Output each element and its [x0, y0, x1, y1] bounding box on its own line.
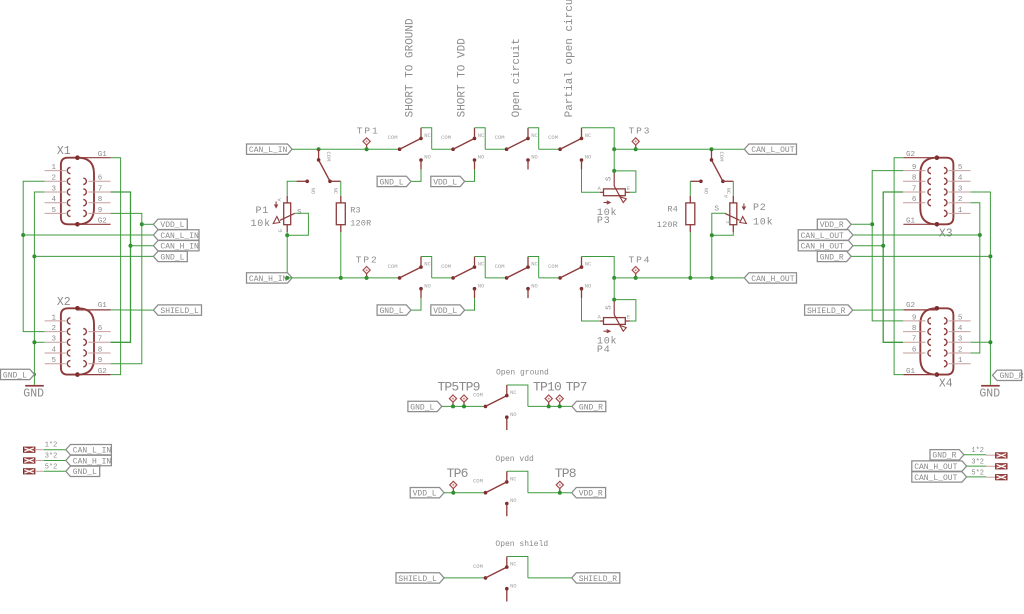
- P4 adjust arrow: [604, 330, 611, 333]
- switch S9 lever COM-NC: [319, 160, 330, 181]
- net flag CAN_H_IN (cross reference): [66, 455, 112, 465]
- wire NC bump of S6: [475, 257, 486, 278]
- switch S2 NC contact and pin: [473, 137, 477, 141]
- switch S4 COM contact: [558, 147, 562, 151]
- svg-text:GND_L: GND_L: [73, 468, 97, 477]
- svg-text:NO: NO: [424, 154, 431, 161]
- pin 4 of X2: [45, 346, 66, 354]
- pin 1 of X3: [949, 207, 971, 215]
- svg-text:COM: COM: [548, 263, 558, 270]
- switch S13 COM contact: [484, 576, 488, 580]
- pin 8 of X2: [88, 346, 110, 354]
- junction GND / bottom GND_L flag: [33, 373, 36, 376]
- svg-text:NC: NC: [332, 188, 339, 195]
- svg-text:VDD_L: VDD_L: [413, 490, 437, 499]
- wire NO of S5 down to GND_L flag: [411, 298, 421, 310]
- switch S3 lever COM-NC: [507, 138, 528, 149]
- wire Open ground left row: [442, 405, 486, 407]
- pin 6 of X1: [88, 175, 110, 183]
- svg-text:CAN_L_OUT: CAN_L_OUT: [914, 474, 957, 483]
- off-page connector 3*2 (right, CAN_H_OUT): [996, 464, 1007, 469]
- wire NO of S9 to P1 pin A: [287, 181, 296, 196]
- connector X3 contact arcs left column: [928, 168, 931, 206]
- svg-text:Open ground: Open ground: [496, 369, 549, 378]
- switch S2 COM contact: [451, 147, 455, 151]
- switch S8 NC contact and pin: [580, 265, 584, 269]
- resistor R4 120R: [686, 196, 695, 232]
- switch S6 COM contact: [451, 276, 455, 280]
- svg-text:NO: NO: [510, 497, 517, 504]
- switch S4 NC contact and pin: [580, 137, 584, 141]
- junction GND / X4 pin3: [988, 340, 992, 344]
- switch S3 NO contact and pin: [526, 158, 530, 162]
- svg-text:NC: NC: [510, 561, 517, 568]
- switch S4 lever COM-NC: [560, 138, 581, 149]
- svg-text:SHIELD_R: SHIELD_R: [579, 575, 618, 584]
- connector X2 shell attach dot top: [75, 306, 80, 311]
- switch S10 pin labels: [702, 152, 731, 195]
- off-page connector 3*2 (left, CAN_H_IN): [24, 458, 35, 463]
- svg-text:120R: 120R: [350, 218, 371, 228]
- connector X4 shell attach dot top: [935, 306, 940, 311]
- pin 1 of X1: [45, 164, 66, 172]
- wire P3 S tie to pin E: [614, 171, 636, 192]
- svg-text:NC: NC: [585, 132, 592, 139]
- potentiometer P2 10k: [725, 196, 747, 232]
- wire NC bump of S8: [582, 257, 615, 278]
- svg-text:GND: GND: [23, 387, 44, 400]
- svg-text:SHIELD_L: SHIELD_L: [160, 307, 199, 316]
- net flag CAN_L_OUT (ladder output): [744, 144, 796, 154]
- svg-text:TP8: TP8: [555, 466, 576, 481]
- svg-text:VDD_L: VDD_L: [433, 307, 457, 316]
- pin G1 of X2 (shell) line: [78, 309, 111, 311]
- pin G1 of X4 (shell) line: [903, 374, 936, 376]
- junction P3 S-E tie: [612, 169, 616, 173]
- junction CAN_L / right termination branch: [710, 147, 714, 151]
- svg-text:GND_R: GND_R: [820, 253, 844, 262]
- svg-text:TP5: TP5: [437, 380, 458, 395]
- junction CAN_H / P4 branch: [612, 276, 616, 280]
- junction CAN_H / CAN_H_OUT row: [881, 244, 885, 248]
- pin 5 of X1: [45, 207, 66, 215]
- pin G2 of X3 (shell) line: [903, 157, 936, 159]
- pin 3 of X2: [45, 336, 66, 344]
- svg-text:S: S: [715, 206, 720, 214]
- switch S8 NO contact and pin: [580, 287, 584, 291]
- svg-text:G2: G2: [906, 151, 915, 159]
- svg-text:3: 3: [51, 185, 56, 193]
- connector X4 body: [920, 308, 953, 374]
- svg-text:NO: NO: [585, 282, 592, 289]
- connector X3 body: [920, 158, 953, 225]
- test point TP4: [632, 267, 639, 280]
- svg-text:CAN_L_IN: CAN_L_IN: [249, 146, 288, 155]
- svg-text:NC: NC: [585, 261, 592, 268]
- svg-text:10k: 10k: [753, 217, 773, 229]
- pin G2 of X1 (shell) line, unconnected stub: [78, 223, 111, 225]
- svg-text:COM: COM: [325, 152, 332, 162]
- switch S7 pin labels: [495, 261, 539, 290]
- switch S11 lever COM-NC: [486, 396, 507, 407]
- svg-text:GND_L: GND_L: [3, 371, 27, 380]
- svg-text:GND_L: GND_L: [160, 253, 184, 262]
- pin 5 of X3: [949, 164, 971, 172]
- connector X4 contact arcs left column: [928, 318, 931, 356]
- svg-text:1: 1: [958, 357, 963, 365]
- test point TP1: [363, 138, 370, 151]
- wire CAN_L row: branch junction to TP1: [319, 148, 367, 150]
- pin 4 of X4: [949, 325, 971, 333]
- svg-text:7: 7: [912, 336, 917, 344]
- connector X2 body: [61, 308, 94, 374]
- wire Open ground right row: [528, 405, 572, 407]
- switch S12 COM contact: [484, 491, 488, 495]
- net flag CAN_L_OUT (cross reference): [912, 472, 967, 482]
- net flag CAN_H_OUT (cross reference): [912, 461, 967, 471]
- svg-text:G2: G2: [98, 217, 107, 225]
- junction GND / GND_L row: [32, 254, 36, 258]
- svg-text:9: 9: [98, 357, 103, 365]
- svg-text:4: 4: [51, 346, 56, 354]
- potentiometer P3 10k: [600, 171, 630, 203]
- test point TP9: [460, 395, 467, 408]
- svg-text:COM: COM: [388, 263, 398, 270]
- wire P2 wiper S tie to E: [712, 213, 725, 235]
- wire S6 bump to next switch COM: [485, 277, 506, 279]
- wire NC bump of S7: [528, 257, 539, 278]
- switch S2 NO contact and pin: [473, 158, 477, 162]
- wire CAN_L_OUT flag to 5*2: [967, 476, 996, 478]
- svg-text:G2: G2: [906, 302, 915, 310]
- svg-text:COM: COM: [441, 134, 451, 141]
- pin 6 of X3: [903, 196, 926, 204]
- pin 8 of X3: [903, 175, 926, 183]
- switch S1 NO contact and pin: [419, 158, 423, 162]
- svg-text:NC: NC: [510, 475, 517, 482]
- wire CAN_H_IN row: [131, 245, 154, 247]
- wire GND net to X2 pin3: [34, 341, 44, 343]
- off-page connector 1*2 (left, CAN_L_IN): [24, 447, 35, 452]
- svg-text:X4: X4: [939, 378, 953, 391]
- switch S2 pin labels: [441, 132, 485, 161]
- svg-text:TP3: TP3: [629, 126, 652, 137]
- wire VDD net right: X3 pin9 - X4 pin9: [872, 171, 903, 321]
- switch S12 NO contact and pin: [505, 502, 509, 506]
- pin 3 of X4: [949, 336, 971, 344]
- svg-text:5*2: 5*2: [45, 463, 58, 471]
- svg-text:X2: X2: [57, 296, 71, 309]
- pin G1 of X3 (shell) line, unconnected stub: [903, 223, 936, 225]
- wire P1 wiper S tie to E: [287, 213, 308, 235]
- wire NC of S9 to R3: [340, 181, 342, 196]
- wire R4 down to CAN_H row: [689, 232, 691, 278]
- connector X3 contact arcs right column: [944, 168, 947, 217]
- pin 1 of X4: [949, 357, 971, 365]
- pin 7 of X4: [903, 336, 926, 344]
- net flag GND_L (left column): [153, 251, 187, 261]
- wire S5 bump to next switch COM: [432, 277, 453, 279]
- wire shell net right: X3 G2 - X4 G1: [894, 158, 903, 375]
- P3 adjust arrow: [604, 201, 611, 204]
- switch S2 lever COM-NC: [453, 138, 474, 149]
- switch S1 lever COM-NC: [400, 138, 421, 149]
- svg-text:TP6: TP6: [447, 466, 468, 481]
- svg-text:NC: NC: [424, 132, 431, 139]
- pin 2 of X2: [45, 325, 66, 333]
- switch S13 pin labels: [473, 561, 517, 590]
- svg-text:3*2: 3*2: [45, 453, 58, 461]
- svg-text:NO: NO: [478, 282, 485, 289]
- wire Open vdd left row: [444, 492, 485, 494]
- net flag CAN_H_OUT (right column): [798, 241, 853, 251]
- svg-text:Open circuit: Open circuit: [511, 38, 523, 117]
- svg-text:CAN_H_OUT: CAN_H_OUT: [801, 243, 844, 252]
- junction CAN_L / CAN_L_IN row: [21, 233, 25, 237]
- svg-text:10k: 10k: [251, 218, 271, 230]
- wire 1*2 to CAN_L_IN flag: [35, 449, 66, 451]
- wire CAN_L net left: X1 pin2 - X2 pin2: [23, 181, 44, 331]
- switch S3 NC contact and pin: [526, 137, 530, 141]
- switch S7 COM contact: [505, 276, 509, 280]
- wire P1 pin E to tie junction: [286, 232, 288, 235]
- svg-text:X1: X1: [57, 145, 71, 158]
- pin 9 of X1: [88, 207, 110, 215]
- switch S3 COM contact: [505, 147, 509, 151]
- wire CAN_L net right: X3 pin2 - X4 pin2: [971, 203, 980, 353]
- svg-text:NC: NC: [478, 261, 485, 268]
- svg-text:G2: G2: [98, 368, 107, 376]
- wire NC bump of S4: [582, 128, 615, 149]
- svg-text:1*2: 1*2: [45, 442, 58, 450]
- svg-text:NO: NO: [531, 154, 538, 161]
- switch S5 COM contact: [398, 276, 402, 280]
- wire NC bump of S2: [475, 128, 486, 149]
- switch S10 lever COM-NC: [712, 160, 723, 181]
- switch S6 lever COM-NC: [453, 267, 474, 278]
- svg-text:2: 2: [958, 346, 963, 354]
- svg-text:S: S: [605, 305, 613, 310]
- wire P3 S down from CAN_L row: [613, 149, 615, 171]
- switch S4 pin labels: [548, 132, 592, 161]
- connector X4 contact arcs right column: [944, 318, 947, 367]
- connector X1 contact arcs left column: [67, 168, 70, 217]
- wire CAN_H net left: X1 pin7 - X2 pin7: [111, 192, 131, 342]
- switch S11 COM contact: [484, 405, 488, 409]
- svg-text:CAN_H_IN: CAN_H_IN: [73, 457, 112, 466]
- svg-text:COM: COM: [495, 263, 505, 270]
- connector X1 shell attach dot top: [75, 155, 80, 160]
- svg-text:CAN_H_IN: CAN_H_IN: [160, 243, 199, 252]
- wire VDD net left: X1 pin9 - X2 pin9: [111, 213, 142, 363]
- off-page connector 5*2 (left, GND_L): [24, 469, 35, 474]
- net flag GND_L (under S5): [377, 305, 411, 315]
- wire NC bump of S3: [528, 128, 539, 149]
- wire Open vdd right row: [528, 492, 572, 494]
- svg-text:NO: NO: [585, 154, 592, 161]
- svg-text:1: 1: [51, 314, 56, 322]
- svg-text:9: 9: [98, 207, 103, 215]
- wire GND net left: X1 pin3 down to ground bar: [34, 192, 44, 385]
- wire P4 S tie to pin E: [614, 300, 636, 321]
- connector X4 shell attach dot bottom: [935, 372, 940, 377]
- svg-text:R3: R3: [350, 205, 361, 215]
- svg-text:X3: X3: [939, 227, 953, 240]
- svg-text:SHORT TO GROUND: SHORT TO GROUND: [404, 18, 416, 117]
- wire GND_L row: [34, 255, 153, 257]
- svg-text:VDD_R: VDD_R: [579, 490, 603, 499]
- wire R3 down to CAN_H row: [340, 232, 342, 278]
- wire S1 bump to next switch COM: [432, 148, 453, 150]
- net flag GND_R (bottom right): [993, 370, 1022, 380]
- svg-text:TP10: TP10: [533, 380, 561, 395]
- connector X3 shell attach dot bottom: [935, 222, 940, 227]
- svg-text:GND_R: GND_R: [1000, 372, 1024, 381]
- net flag VDD_L (left column): [153, 219, 187, 229]
- svg-text:6: 6: [912, 346, 917, 354]
- switch S7 lever COM-NC: [507, 267, 528, 278]
- svg-text:2: 2: [51, 175, 56, 183]
- svg-text:G1: G1: [906, 217, 916, 225]
- svg-text:5: 5: [958, 164, 963, 172]
- pin 8 of X1: [88, 196, 110, 204]
- svg-text:CAN_L_IN: CAN_L_IN: [160, 232, 199, 241]
- svg-text:P1: P1: [256, 206, 270, 217]
- net flag CAN_L_IN (ladder input): [247, 144, 293, 154]
- pin 5 of X2: [45, 357, 66, 365]
- wire VDD_L row: [142, 223, 154, 225]
- wire S2 bump to next switch COM: [485, 148, 506, 150]
- pin 2 of X3: [949, 196, 971, 204]
- wire CAN_H row: TP4 to CAN_H_OUT flag: [636, 277, 745, 279]
- test point TP8: [556, 481, 563, 494]
- wire NO of S1 down to GND_L flag: [411, 169, 421, 181]
- pin 9 of X4: [903, 314, 926, 322]
- switch S6 NC contact and pin: [473, 265, 477, 269]
- wire NO of S4 down to P3 pin A: [582, 169, 600, 192]
- svg-text:COM: COM: [718, 152, 725, 162]
- test point TP6: [450, 481, 457, 494]
- switch S9 (left termination select) COM pin: [318, 149, 320, 160]
- svg-text:TP7: TP7: [566, 380, 587, 395]
- svg-text:9: 9: [912, 164, 917, 172]
- switch S1 NC contact and pin: [419, 137, 423, 141]
- svg-text:TP4: TP4: [629, 254, 652, 265]
- svg-text:COM: COM: [473, 391, 483, 398]
- net flag SHIELD_R (Open shield right): [572, 573, 620, 583]
- potentiometer P1 10k: [273, 196, 295, 232]
- net flag CAN_H_IN (ladder input): [247, 273, 293, 283]
- svg-text:COM: COM: [473, 478, 483, 485]
- svg-text:GND_L: GND_L: [380, 178, 404, 187]
- test point TP2: [363, 267, 370, 280]
- ground symbol GND (right): [979, 385, 1000, 401]
- svg-text:NC: NC: [531, 261, 538, 268]
- svg-text:6: 6: [912, 196, 917, 204]
- svg-text:NC: NC: [725, 188, 732, 195]
- svg-text:6: 6: [98, 175, 103, 183]
- wire P1 tie down to CAN_H row: [286, 235, 288, 278]
- wire Open shield left row: [444, 577, 485, 579]
- svg-text:120R: 120R: [657, 220, 678, 230]
- switch S8 lever COM-NC: [560, 267, 581, 278]
- wire CAN_L row: TP3 to right branch: [636, 148, 712, 150]
- wire NO of S10 to R4: [689, 181, 691, 196]
- wire CAN_L row: branch to CAN_L_OUT flag: [712, 148, 745, 150]
- svg-text:Partial open circuit: Partial open circuit: [564, 0, 576, 117]
- connector X1 contact arcs right column: [83, 178, 86, 216]
- pin 1 of X2: [45, 314, 66, 322]
- wire P2 pin E to tie junction: [712, 232, 734, 235]
- wire NC bump of S12: [507, 471, 528, 492]
- switch S5 NO contact and pin: [419, 287, 423, 291]
- net flag VDD_L (under S6): [431, 305, 465, 315]
- svg-text:S: S: [605, 176, 613, 181]
- wire 5*2 to GND_L flag: [35, 470, 66, 472]
- svg-text:GND_R: GND_R: [579, 403, 603, 412]
- wire shell net left: X1 G1 - X2 G2: [111, 158, 121, 375]
- switch S12 pin labels: [473, 475, 517, 504]
- wire NC of S10 to P2 pin A: [732, 181, 734, 196]
- switch S6 NO contact and pin: [473, 287, 477, 291]
- svg-text:COM: COM: [441, 263, 451, 270]
- junction R4 branch / CAN_H row: [688, 276, 692, 280]
- wire NO of S6 down to VDD_L flag: [465, 298, 475, 310]
- wire CAN_H net right: X3 pin7 - X4 pin7: [883, 192, 903, 342]
- svg-text:7: 7: [912, 185, 917, 193]
- switch S13 NC contact and pin: [505, 565, 509, 569]
- test point TP3: [632, 138, 639, 151]
- svg-text:VDD_L: VDD_L: [160, 221, 184, 230]
- svg-text:5: 5: [51, 357, 56, 365]
- svg-text:3: 3: [51, 336, 56, 344]
- net flag GND_L (bottom left): [1, 369, 35, 379]
- net flag CAN_H_IN (left column): [153, 241, 199, 251]
- junction P1 branch / CAN_H row: [285, 276, 289, 280]
- svg-text:7: 7: [98, 336, 103, 344]
- pin 8 of X4: [903, 325, 926, 333]
- wire P2 tie down to CAN_H row: [711, 235, 713, 278]
- net flag SHIELD_R: [805, 305, 853, 315]
- wire CAN_L row: flag to branch junction: [292, 148, 319, 150]
- svg-text:CAN_H_OUT: CAN_H_OUT: [751, 275, 794, 284]
- wire Open shield right row: [528, 577, 572, 579]
- svg-text:R4: R4: [667, 204, 678, 214]
- switch S3 pin labels: [495, 132, 539, 161]
- svg-text:VDD_R: VDD_R: [820, 221, 844, 230]
- junction VDD / VDD_R row: [870, 222, 874, 226]
- wire 3*2 to CAN_H_IN flag: [35, 460, 66, 462]
- wire S3 bump to next switch COM: [539, 148, 560, 150]
- switch S5 pin labels: [388, 261, 432, 290]
- connector X2 contact arcs right column: [83, 329, 86, 367]
- svg-text:SHIELD_R: SHIELD_R: [807, 307, 846, 316]
- wire CAN_H row: P4 branch to TP4: [614, 277, 636, 279]
- svg-text:NC: NC: [478, 132, 485, 139]
- net flag CAN_L_IN (left column): [153, 230, 199, 240]
- wire SHIELD_R net: X4 G2 to flag: [853, 309, 904, 311]
- svg-text:2: 2: [51, 325, 56, 333]
- svg-text:8: 8: [912, 325, 917, 333]
- net flag GND_R (Open ground right): [572, 401, 606, 411]
- svg-text:4: 4: [958, 325, 963, 333]
- pin G2 of X2 (shell) line: [78, 374, 111, 376]
- switch S4 NO contact and pin: [580, 158, 584, 162]
- connector X3 shell attach dot top: [935, 155, 940, 160]
- pin 6 of X4: [903, 346, 926, 354]
- svg-text:3: 3: [958, 336, 963, 344]
- switch S11 pin labels: [473, 389, 517, 418]
